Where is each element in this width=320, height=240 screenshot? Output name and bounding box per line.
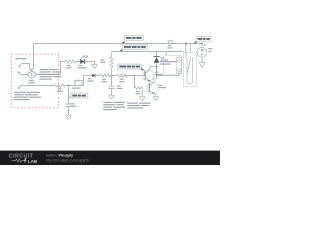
resistor R3 vertical: [110, 52, 113, 76]
wire label drop from speaker junction: [68, 86, 70, 105]
net flag L3: [69, 96, 72, 98]
pushbutton SW1: [74, 79, 84, 85]
Q1 text: [155, 72, 163, 76]
resistor R4: [100, 74, 110, 77]
R5 text: [119, 79, 124, 83]
resistor R5: [117, 74, 127, 77]
svg-text:LAB: LAB: [28, 159, 38, 164]
ground G4: [153, 97, 159, 101]
C1 text: [117, 85, 123, 89]
pin arrow P3: [19, 86, 24, 88]
R4 text: [102, 79, 107, 83]
relay switch outline B: [183, 52, 196, 87]
wire top rail: [34, 43, 203, 45]
ground G1: [91, 65, 97, 69]
capacitor C2: [66, 104, 72, 106]
net flag L4: [194, 41, 197, 43]
R2 text: [57, 88, 63, 91]
ground G6: [65, 115, 71, 119]
wire speaker row: [24, 85, 54, 87]
relay RLY1 outline A: [164, 55, 181, 75]
diode D2 flyback: [156, 52, 158, 57]
wire LED to ground: [85, 62, 95, 65]
resistor R2: [54, 84, 65, 87]
pin arrow P1: [19, 64, 21, 66]
ground G5: [199, 63, 205, 68]
wire coil bottom: [157, 72, 179, 75]
transistor Q1: [143, 70, 154, 81]
relay feed wires: [186, 44, 190, 58]
junction node at speaker row: [68, 85, 70, 87]
capacitor C1 branch: [111, 76, 113, 87]
ground G2: [108, 95, 114, 99]
Q2 text: [158, 85, 166, 89]
rail2 stub into relay: [165, 52, 167, 56]
ground G3: [139, 97, 145, 101]
SW2 text: [167, 45, 172, 49]
wire SW up to base row: [83, 76, 85, 86]
net flag L2 on rail2: [120, 49, 123, 51]
footer bar: [0, 151, 220, 165]
LED D1: [80, 59, 84, 64]
relay lever: [187, 58, 190, 73]
junction node collector: [156, 66, 158, 68]
R1 text: [66, 65, 72, 68]
RLY1 text: [160, 61, 177, 65]
D3 text: [87, 78, 93, 82]
net flag L5 GPIO wide: [118, 64, 142, 69]
annotation T1 model for LED: [40, 69, 62, 80]
behavioral source B1 diamond: [27, 71, 37, 79]
R6 text: [136, 91, 141, 94]
D1 text: [78, 65, 87, 68]
relay switch U wire: [187, 57, 193, 84]
voltage source V2: [201, 43, 203, 45]
svg-text:kellen / PSupply: kellen / PSupply: [46, 154, 73, 158]
wire diamond right to LED row: [37, 62, 65, 75]
wire left drop from top rail: [33, 44, 35, 70]
transistor Q2: [148, 81, 151, 88]
R3 text: [100, 59, 105, 63]
annotation T3: [103, 102, 125, 110]
RaspberryPi box title text: [16, 58, 27, 59]
relay coil: [176, 58, 181, 74]
junction node base row C1: [111, 75, 113, 77]
V2 text: [208, 48, 212, 52]
diode D3: [92, 74, 95, 77]
net flag L1 on top rail: [122, 41, 125, 43]
switch SW2 on top rail: [167, 40, 173, 44]
C2 text: [71, 103, 76, 107]
pin arrow P2: [18, 72, 20, 74]
annotation T4: [127, 103, 150, 109]
svg-text:http://circuitlab.com/c/qjqyz6: http://circuitlab.com/c/qjqyz6: [46, 158, 89, 162]
wire pin1 jog: [22, 64, 34, 72]
raspberry pi dashed enclosure box: [11, 54, 58, 108]
D2 text: [161, 57, 168, 61]
wire base row: [84, 75, 92, 77]
resistor R6 pulldown branch: [134, 76, 136, 89]
resistor R1: [65, 60, 76, 63]
junction node base row R6: [134, 75, 136, 77]
wire diamond left: [21, 74, 27, 76]
annotation T2 inside pi box: [14, 92, 41, 100]
B1 name value text: [28, 80, 35, 84]
SW1 text: [72, 88, 81, 89]
wire rail2: [112, 51, 184, 53]
